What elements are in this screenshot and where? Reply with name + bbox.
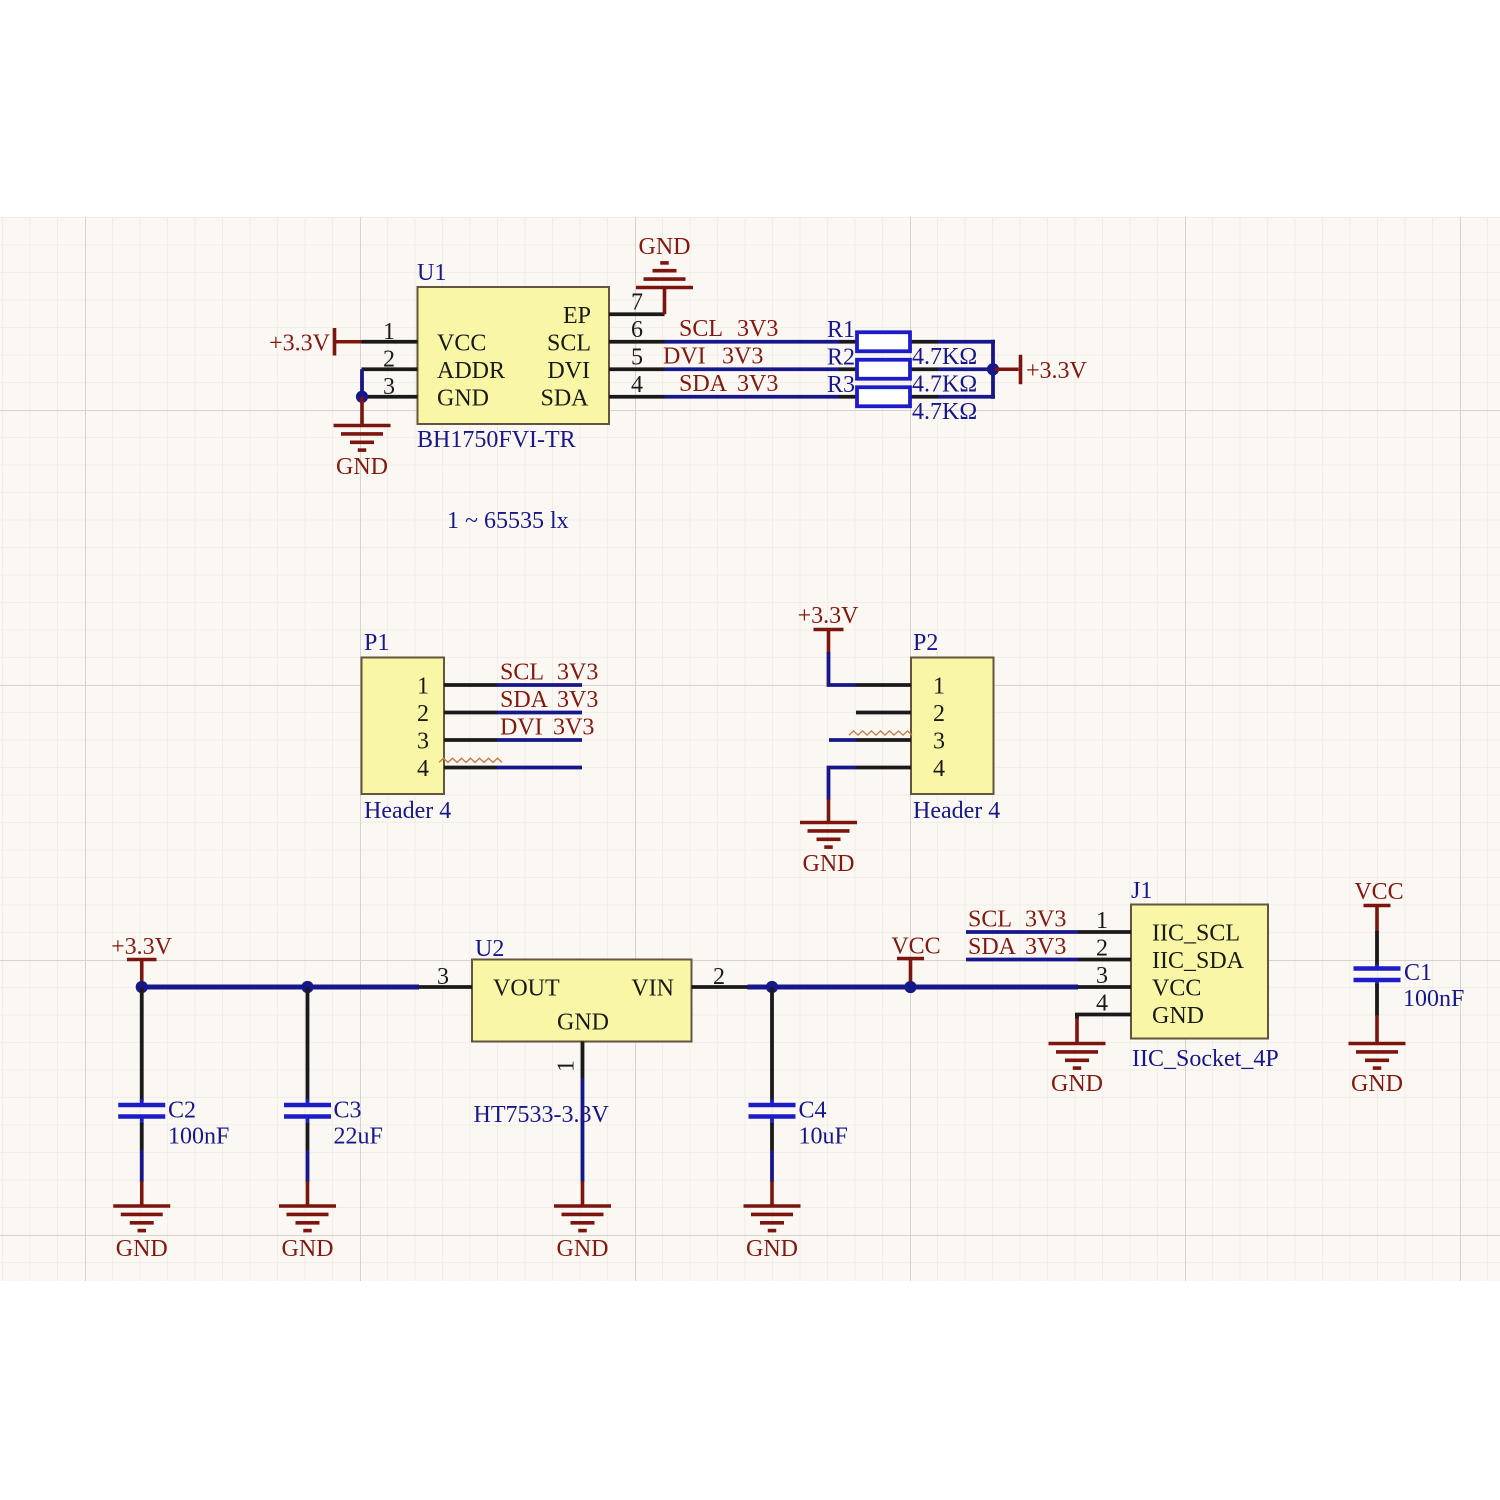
wire P2 pin 4 to GND — [829, 768, 857, 801]
U1 pin 5 DVI — [609, 367, 665, 371]
svg-text:SDA: SDA — [679, 371, 728, 397]
wire R2 to +3.3V trunk — [938, 367, 995, 371]
P1 pin 3 — [444, 738, 497, 742]
svg-text:1: 1 — [1096, 908, 1108, 934]
wire R1 to +3.3V trunk — [938, 340, 995, 344]
svg-text:R1: R1 — [827, 317, 855, 343]
svg-text:P2: P2 — [913, 630, 938, 656]
svg-text:HT7533-3.3V: HT7533-3.3V — [474, 1102, 610, 1128]
svg-text:1: 1 — [383, 319, 395, 345]
svg-text:GND: GND — [282, 1236, 334, 1262]
svg-text:VOUT: VOUT — [493, 976, 560, 1002]
svg-text:VIN: VIN — [631, 976, 674, 1002]
svg-text:1: 1 — [554, 1060, 580, 1072]
svg-text:SDA: SDA — [968, 934, 1017, 960]
svg-text:4: 4 — [933, 756, 945, 782]
P2 pin 1 — [856, 683, 911, 687]
svg-text:U2: U2 — [475, 936, 504, 962]
svg-text:3: 3 — [437, 964, 449, 990]
svg-text:100nF: 100nF — [168, 1124, 229, 1150]
wire R3 to +3.3V trunk — [938, 395, 995, 399]
svg-text:SCL: SCL — [968, 906, 1012, 932]
svg-text:1: 1 — [417, 674, 429, 700]
svg-text:4.7KΩ: 4.7KΩ — [912, 399, 977, 425]
svg-text:EP: EP — [563, 303, 591, 329]
resistor R2 body — [857, 360, 910, 379]
svg-text:6: 6 — [631, 317, 643, 343]
resistor R1 body — [857, 332, 910, 351]
capacitor C2 plates — [140, 1099, 144, 1103]
svg-text:+3.3V: +3.3V — [798, 603, 860, 629]
svg-text:3: 3 — [1096, 963, 1108, 989]
svg-text:C3: C3 — [334, 1098, 362, 1124]
capacitor C3 bottom lead — [306, 1123, 310, 1150]
svg-text:3V3: 3V3 — [737, 316, 778, 342]
svg-text:3V3: 3V3 — [553, 714, 594, 740]
P2 pin 3 — [856, 738, 911, 742]
svg-text:GND: GND — [557, 1010, 609, 1036]
junction rail at C4 — [766, 981, 778, 993]
junction rail at VCC — [904, 981, 916, 993]
resistor R3 body — [857, 387, 910, 406]
svg-text:2: 2 — [933, 701, 945, 727]
svg-text:SDA: SDA — [540, 385, 589, 411]
connector P1 body — [362, 658, 445, 795]
svg-text:10uF: 10uF — [799, 1124, 848, 1150]
svg-text:GND: GND — [1152, 1003, 1204, 1029]
wire U2 GND down — [581, 1078, 585, 1182]
no-ERC squiggle at P1 pin 4 — [439, 758, 502, 762]
U1 pin 7 EP — [609, 312, 665, 316]
svg-text:4: 4 — [417, 756, 429, 782]
wire J1 pin 4 to GND — [1075, 1015, 1079, 1020]
svg-text:VCC: VCC — [1354, 879, 1403, 905]
svg-text:GND: GND — [639, 234, 691, 260]
svg-text:3V3: 3V3 — [737, 371, 778, 397]
no-ERC squiggle at P2 pin 3 — [849, 731, 912, 735]
svg-text:3: 3 — [417, 729, 429, 755]
wire SDA 3V3 from U1 pin 4 — [665, 395, 840, 399]
ground GND below C2 — [140, 1181, 144, 1206]
svg-text:GND: GND — [336, 454, 388, 480]
svg-text:P1: P1 — [364, 630, 389, 656]
svg-text:J1: J1 — [1131, 878, 1152, 904]
svg-text:4.7KΩ: 4.7KΩ — [912, 344, 977, 370]
connector J1 body — [1131, 905, 1268, 1039]
svg-text:2: 2 — [1096, 936, 1108, 962]
wire +3.3V pull-up trunk vertical — [991, 340, 995, 399]
wire at P1 pin 4 — [497, 766, 582, 770]
svg-text:U1: U1 — [417, 260, 446, 286]
svg-text:1 ~ 65535 lx: 1 ~ 65535 lx — [447, 508, 569, 534]
U2 pin 2 VIN — [692, 985, 748, 989]
wire VIN rail — [748, 985, 1079, 990]
svg-text:3V3: 3V3 — [722, 344, 763, 370]
U1 pin 4 SDA — [609, 395, 665, 399]
svg-text:SCL: SCL — [679, 316, 723, 342]
svg-text:C4: C4 — [799, 1098, 827, 1124]
svg-text:R2: R2 — [827, 345, 855, 371]
capacitor C2 top lead — [140, 987, 144, 1101]
capacitor C3 plates — [306, 1099, 310, 1103]
IC U1 BH1750FVI-TR body — [418, 287, 610, 424]
svg-text:2: 2 — [417, 701, 429, 727]
ground GND at U1 EP pin (inverted) — [663, 288, 667, 315]
junction rail at C3 — [301, 981, 313, 993]
svg-text:C1: C1 — [1404, 960, 1432, 986]
capacitor C2 bottom lead — [140, 1123, 144, 1150]
svg-text:3V3: 3V3 — [1025, 934, 1066, 960]
J1 pin 2 IIC_SDA — [1078, 958, 1131, 962]
capacitor C4 bottom lead — [770, 1123, 774, 1150]
svg-text:SCL: SCL — [500, 659, 544, 685]
svg-text:+3.3V: +3.3V — [1026, 358, 1088, 384]
svg-text:GND: GND — [1051, 1071, 1103, 1097]
svg-text:3V3: 3V3 — [557, 687, 598, 713]
svg-text:BH1750FVI-TR: BH1750FVI-TR — [417, 427, 576, 453]
U1 pin 3 GND — [368, 395, 418, 399]
svg-text:+3.3V: +3.3V — [269, 331, 331, 357]
ground GND below P2 — [827, 799, 831, 823]
svg-text:VCC: VCC — [437, 330, 486, 356]
svg-text:GND: GND — [746, 1236, 798, 1262]
svg-text:1: 1 — [933, 674, 945, 700]
wire SCL 3V3 from U1 pin 6 — [665, 340, 840, 344]
svg-text:R3: R3 — [827, 372, 855, 398]
svg-text:100nF: 100nF — [1403, 986, 1464, 1012]
U1 pin 1 VCC — [362, 340, 418, 344]
P1 pin 1 — [444, 683, 497, 687]
regulator U2 body — [472, 960, 692, 1042]
U1 pin 2 ADDR — [362, 367, 418, 371]
J1 pin 3 VCC — [1078, 985, 1131, 989]
U2 pin 1 GND — [581, 1042, 585, 1079]
capacitor C1 top lead — [1375, 931, 1379, 966]
capacitor C4 plates — [770, 1099, 774, 1103]
P1 pin 2 — [444, 711, 497, 715]
J1 pin 4 GND — [1075, 1013, 1131, 1017]
svg-text:3: 3 — [933, 729, 945, 755]
wire +3.3V rail to U2 VOUT — [142, 985, 419, 990]
svg-text:SCL: SCL — [547, 330, 591, 356]
wire SDA 3V3 at J1 pin 2 — [966, 958, 1078, 962]
ground GND below C3 — [306, 1181, 310, 1206]
ground GND below C4 — [770, 1181, 774, 1206]
P1 pin 4 — [444, 766, 497, 770]
svg-text:IIC_Socket_4P: IIC_Socket_4P — [1132, 1046, 1279, 1072]
ground GND at J1 pin 4 — [1049, 1042, 1106, 1046]
U1 pin 6 SCL — [609, 340, 665, 344]
capacitor C3 top lead — [306, 987, 310, 1101]
resistor R3 pins — [839, 395, 856, 399]
svg-text:22uF: 22uF — [334, 1124, 383, 1150]
J1 pin 1 IIC_SCL — [1078, 930, 1131, 934]
capacitor C4 top lead — [770, 987, 774, 1101]
svg-text:SDA: SDA — [500, 687, 549, 713]
wire ADDR to GND net — [360, 369, 364, 398]
svg-text:2: 2 — [713, 964, 725, 990]
capacitor C1 plates — [1375, 964, 1379, 967]
resistor R1 pins — [839, 340, 856, 344]
svg-text:+3.3V: +3.3V — [111, 934, 173, 960]
svg-text:VCC: VCC — [891, 934, 940, 960]
svg-text:3: 3 — [383, 374, 395, 400]
svg-text:Header 4: Header 4 — [913, 798, 1000, 824]
svg-text:ADDR: ADDR — [437, 358, 505, 384]
svg-text:4: 4 — [1096, 991, 1108, 1017]
ground GND below U2 — [581, 1181, 585, 1206]
svg-text:GND: GND — [803, 851, 855, 877]
svg-text:GND: GND — [116, 1236, 168, 1262]
wire DVI 3V3 at P1 pin 3 — [497, 738, 582, 742]
wire SCL 3V3 at J1 pin 1 — [966, 930, 1078, 934]
svg-text:2: 2 — [383, 346, 395, 372]
svg-text:GND: GND — [557, 1236, 609, 1262]
svg-text:Header 4: Header 4 — [364, 798, 451, 824]
capacitor C1 bottom lead — [1375, 984, 1379, 1016]
wire SCL 3V3 at P1 pin 1 — [497, 683, 582, 687]
wire SDA 3V3 at P1 pin 2 — [497, 711, 582, 715]
svg-text:3V3: 3V3 — [557, 659, 598, 685]
wire +3.3V to P2 pin 1 — [829, 652, 857, 685]
P2 pin 2 — [856, 711, 911, 715]
svg-text:C2: C2 — [168, 1098, 196, 1124]
wire stub at P2 pin 3 — [829, 738, 856, 742]
svg-text:GND: GND — [1351, 1071, 1403, 1097]
power +3.3V at pull-up trunk — [995, 367, 1019, 371]
junction at pull-up trunk — [987, 363, 999, 375]
connector P2 body — [911, 658, 994, 795]
svg-text:GND: GND — [437, 385, 489, 411]
svg-text:4.7KΩ: 4.7KΩ — [912, 372, 977, 398]
ground GND below C1 — [1349, 1042, 1406, 1046]
svg-text:DVI: DVI — [500, 714, 543, 740]
junction rail at C2 — [136, 981, 148, 993]
svg-text:DVI: DVI — [663, 344, 706, 370]
svg-text:4: 4 — [631, 372, 643, 398]
svg-text:5: 5 — [631, 344, 643, 370]
svg-text:IIC_SCL: IIC_SCL — [1152, 921, 1240, 947]
P2 pin 4 — [856, 766, 911, 770]
resistor R2 pins — [839, 367, 856, 371]
svg-text:VCC: VCC — [1152, 976, 1201, 1002]
svg-text:3V3: 3V3 — [1025, 906, 1066, 932]
junction at U1 pin 3 — [356, 391, 368, 403]
ground GND at U1 pin 3 — [360, 397, 364, 426]
wire DVI 3V3 from U1 pin 5 — [665, 367, 840, 371]
svg-text:DVI: DVI — [547, 358, 590, 384]
svg-text:7: 7 — [631, 289, 643, 315]
U2 pin 3 VOUT — [419, 985, 472, 989]
svg-text:IIC_SDA: IIC_SDA — [1152, 948, 1245, 974]
